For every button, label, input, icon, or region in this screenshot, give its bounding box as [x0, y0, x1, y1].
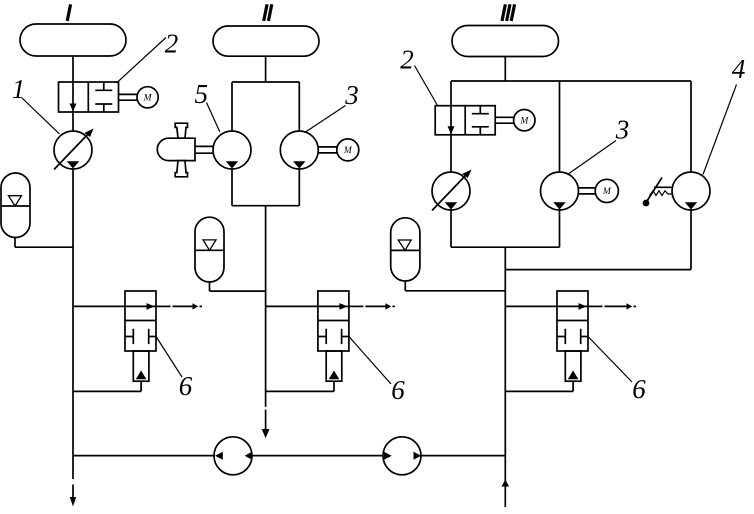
leader label 3 II [306, 106, 346, 133]
label I [67, 4, 70, 21]
wire tank III to header [504, 57, 506, 82]
frame II [232, 81, 299, 83]
valve 2 (section III) [435, 106, 495, 135]
svg-text:3: 3 [615, 115, 630, 145]
shaft pump 3 to motor M [318, 146, 337, 148]
pump 5 [213, 131, 251, 169]
wire accumulator I to main [14, 238, 16, 248]
leader label 4 [703, 85, 737, 175]
leader label 1 [22, 98, 60, 134]
frame bottom III [451, 246, 560, 248]
main wire section I [72, 169, 74, 456]
svg-text:6: 6 [391, 375, 405, 405]
SECTION-III [391, 4, 746, 455]
shaft valve 2 to motor M [119, 93, 138, 95]
svg-text:M: M [519, 116, 529, 126]
leader label 6 I [156, 337, 182, 378]
pilot stub valve 6 I [133, 351, 149, 381]
motor M (section I) [137, 87, 158, 108]
suction wire section III with up arrow [504, 456, 506, 507]
SECTION-II [157, 4, 405, 438]
left branch wire III [450, 81, 452, 172]
variable pump (section III left) [432, 172, 470, 210]
dashed outlet arrow valve 6 III [588, 305, 603, 307]
svg-text:4: 4 [732, 54, 746, 84]
leader label 2 [117, 38, 167, 84]
pump 3 (section II) [280, 131, 318, 169]
valve 6 (section III) [505, 305, 588, 307]
leader label 5 [207, 103, 220, 132]
SECTION-I [1, 4, 202, 455]
wire tank II to frame [265, 56, 267, 82]
wire pump 4 return [690, 210, 692, 270]
label III [502, 4, 505, 21]
svg-text:5: 5 [195, 79, 209, 109]
svg-text:2: 2 [165, 29, 179, 59]
shaft engine to pump 5 [195, 145, 213, 147]
pilot stub valve 6 II [326, 351, 342, 381]
pump 3 (section III) [541, 172, 579, 210]
valve 2 (section I) [59, 82, 119, 112]
tank I [20, 24, 126, 56]
dashed outlet arrow valve 6 II [349, 305, 364, 307]
main wire section III [504, 247, 506, 455]
leader label 2 III [415, 66, 438, 106]
svg-text:1: 1 [12, 74, 26, 104]
accumulator (section II) [195, 217, 224, 282]
arrow to drain II [262, 429, 270, 438]
hydraulic motor (bus left) [214, 437, 252, 475]
label II [264, 4, 267, 21]
dashed outlet arrow valve 6 I [156, 305, 171, 307]
wire accumulator III to main [404, 281, 406, 291]
svg-text:M: M [143, 94, 153, 104]
tank III [452, 26, 559, 57]
leader label 6 II [349, 337, 391, 385]
engine (prime mover) [157, 138, 195, 160]
valve 6 (section II) [266, 305, 349, 307]
middle branch wire III [559, 81, 561, 247]
header wire III [451, 80, 691, 82]
shaft pump 3 III to motor M [579, 187, 596, 189]
svg-text:3: 3 [344, 80, 359, 110]
pilot stub valve 6 III [565, 351, 581, 381]
svg-text:M: M [343, 146, 353, 156]
manual lever control pump 4 [647, 178, 662, 202]
shaft valve 2 III to motor M [495, 116, 513, 118]
leader label 3 III [568, 141, 617, 175]
accumulator (section III) [391, 218, 420, 281]
svg-text:2: 2 [400, 45, 414, 75]
BOTTOM-BUS [70, 437, 509, 507]
valve 6 (section I) [73, 305, 156, 307]
wire accumulator II to main [209, 282, 211, 291]
motor M (valve 2 III) [514, 110, 535, 131]
svg-text:6: 6 [632, 374, 646, 404]
svg-text:6: 6 [179, 371, 193, 401]
right branch wire III [690, 81, 692, 172]
main wire section II [265, 206, 267, 407]
svg-text:M: M [602, 187, 612, 197]
tank II [213, 26, 319, 56]
motor M (section II) [337, 139, 359, 161]
wire tank I to pump 1 [72, 56, 74, 132]
bus wire [73, 455, 505, 457]
pump 4 [672, 172, 710, 210]
accumulator (section I) [1, 173, 30, 238]
hydraulic motor (bus right) [383, 437, 421, 475]
pump 1 (variable) [54, 131, 92, 169]
drain wire section I with arrow [72, 456, 74, 479]
wire pump to frame bottom III [450, 210, 452, 247]
leader label 6 III [588, 337, 632, 383]
motor M (pump 3 III) [595, 179, 618, 202]
